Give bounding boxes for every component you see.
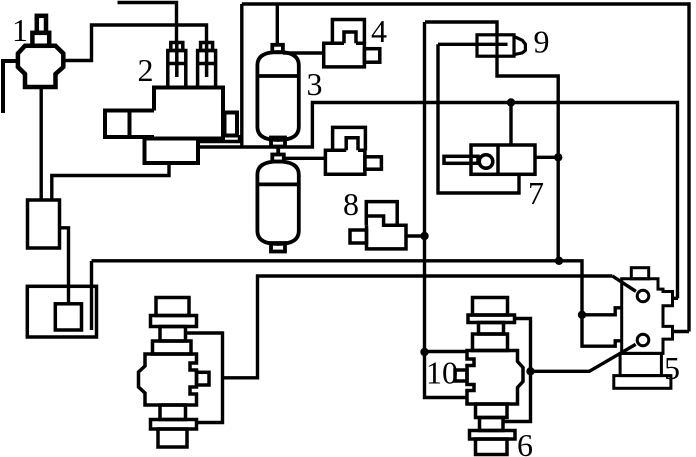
svg-text:3: 3 [307,66,323,102]
svg-text:9: 9 [534,24,550,60]
svg-text:8: 8 [343,186,359,222]
svg-text:5: 5 [664,350,680,386]
svg-text:1: 1 [12,12,28,48]
svg-text:4: 4 [371,13,387,49]
svg-text:2: 2 [138,52,154,88]
svg-text:7: 7 [528,175,544,211]
svg-text:10: 10 [426,355,458,391]
svg-text:6: 6 [517,427,533,457]
